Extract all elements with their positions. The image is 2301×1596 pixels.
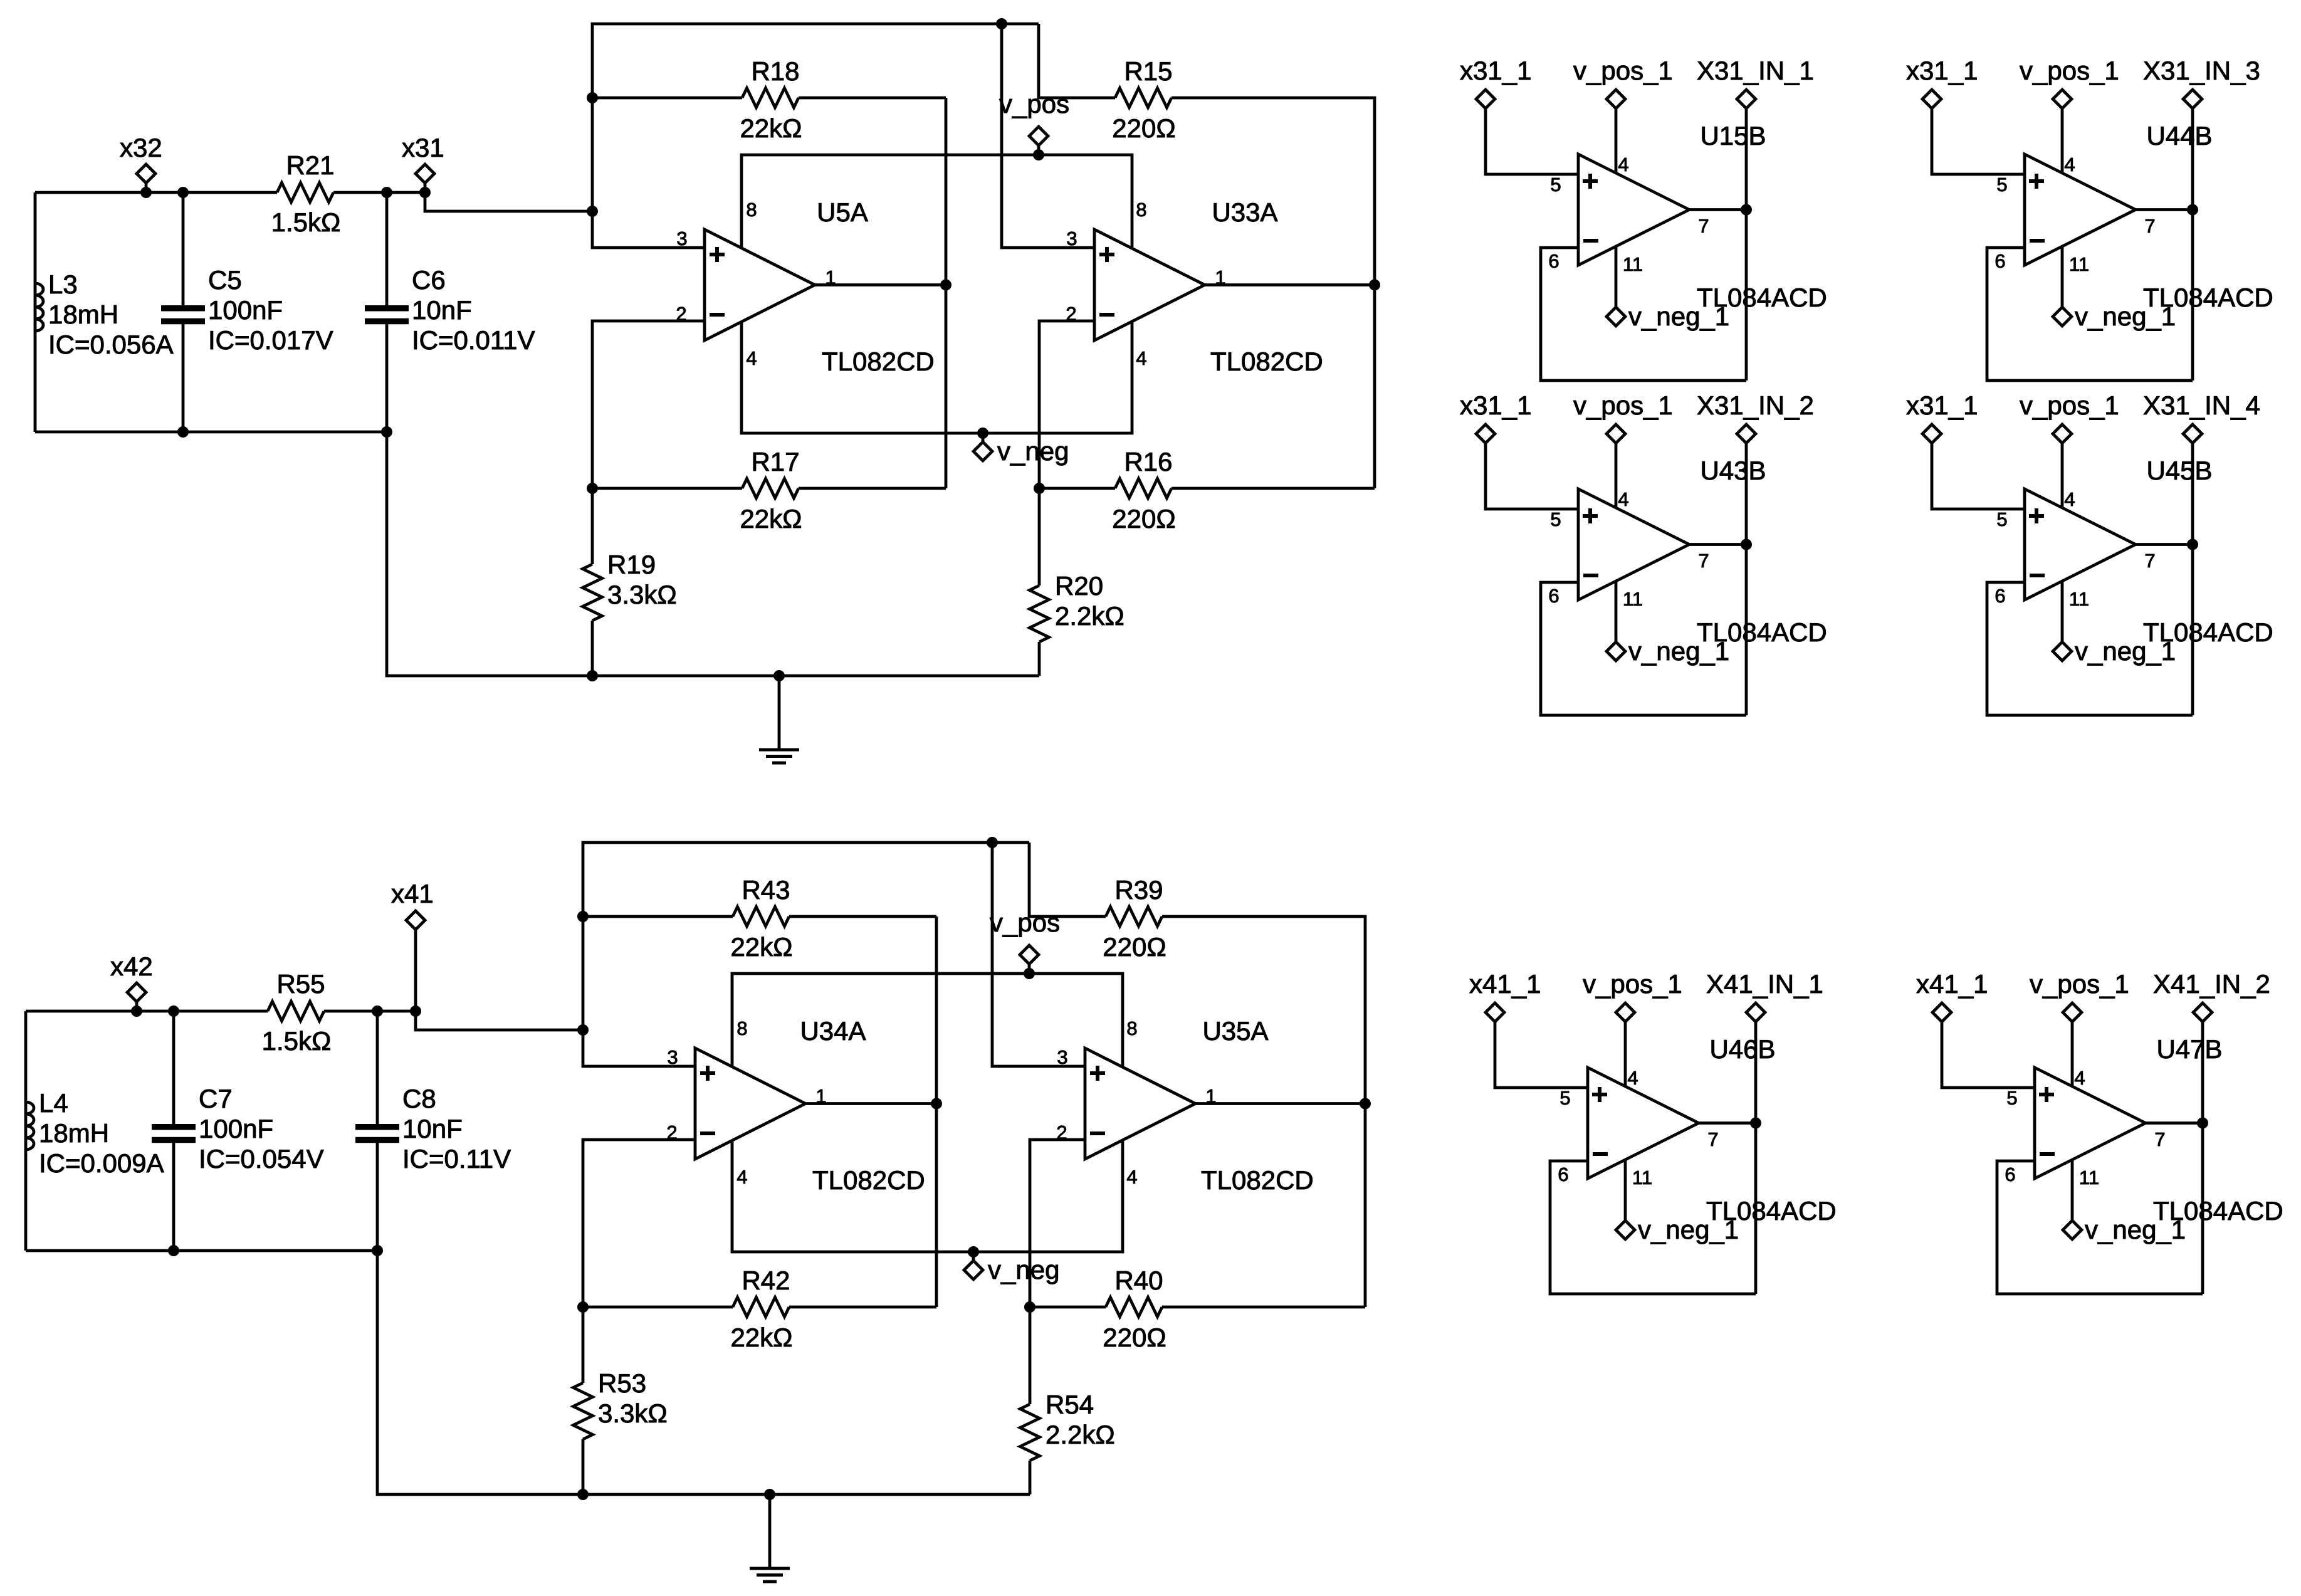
svg-text:X31_IN_2: X31_IN_2: [1697, 391, 1814, 420]
svg-text:6: 6: [1548, 585, 1559, 607]
svg-text:X31_IN_3: X31_IN_3: [2143, 56, 2260, 85]
svg-text:10nF: 10nF: [402, 1114, 463, 1143]
svg-text:C5: C5: [208, 265, 242, 295]
svg-text:TL084ACD: TL084ACD: [2143, 617, 2273, 647]
svg-text:5: 5: [1550, 508, 1561, 530]
svg-text:8: 8: [1136, 199, 1146, 221]
svg-text:X31_IN_4: X31_IN_4: [2143, 391, 2260, 420]
svg-text:R53: R53: [598, 1368, 646, 1398]
svg-text:4: 4: [1618, 488, 1628, 510]
svg-text:1.5kΩ: 1.5kΩ: [271, 207, 341, 237]
svg-text:v_pos_1: v_pos_1: [2030, 969, 2129, 999]
svg-text:4: 4: [2074, 1067, 2085, 1089]
svg-text:2.2kΩ: 2.2kΩ: [1046, 1420, 1115, 1449]
svg-text:U35A: U35A: [1202, 1016, 1268, 1046]
svg-text:2: 2: [666, 1121, 677, 1143]
svg-text:7: 7: [1698, 215, 1709, 237]
svg-text:x41_1: x41_1: [1916, 969, 1988, 999]
svg-text:v_neg: v_neg: [988, 1255, 1059, 1284]
svg-text:v_pos_1: v_pos_1: [1573, 56, 1673, 85]
svg-text:1: 1: [1215, 266, 1225, 288]
svg-text:v_pos_1: v_pos_1: [1573, 391, 1673, 420]
svg-text:v_neg: v_neg: [997, 436, 1069, 466]
svg-text:L4: L4: [39, 1088, 68, 1118]
svg-text:3.3kΩ: 3.3kΩ: [598, 1399, 668, 1428]
svg-text:2.2kΩ: 2.2kΩ: [1055, 601, 1124, 631]
svg-text:22kΩ: 22kΩ: [730, 1323, 792, 1352]
svg-text:100nF: 100nF: [199, 1114, 273, 1143]
svg-text:IC=0.054V: IC=0.054V: [199, 1144, 324, 1173]
svg-text:11: 11: [2069, 253, 2089, 275]
svg-text:4: 4: [2064, 154, 2075, 176]
svg-text:TL082CD: TL082CD: [1201, 1165, 1314, 1195]
svg-text:IC=0.056A: IC=0.056A: [48, 330, 174, 359]
svg-text:x42: x42: [110, 952, 153, 981]
svg-text:3: 3: [1066, 228, 1077, 249]
svg-text:TL084ACD: TL084ACD: [1706, 1196, 1837, 1226]
svg-text:6: 6: [1994, 585, 2005, 607]
svg-text:4: 4: [1126, 1166, 1137, 1188]
svg-text:U5A: U5A: [817, 197, 868, 227]
svg-text:IC=0.11V: IC=0.11V: [402, 1144, 511, 1173]
svg-text:R43: R43: [742, 875, 790, 905]
svg-text:5: 5: [2006, 1087, 2017, 1109]
svg-text:5: 5: [1550, 174, 1561, 196]
svg-text:3: 3: [676, 228, 687, 249]
svg-text:8: 8: [746, 199, 757, 221]
svg-text:R18: R18: [751, 56, 799, 86]
svg-text:5: 5: [1996, 174, 2007, 196]
svg-text:3: 3: [667, 1046, 678, 1068]
svg-text:U46B: U46B: [1709, 1034, 1775, 1064]
svg-text:22kΩ: 22kΩ: [730, 932, 792, 962]
svg-text:7: 7: [2154, 1128, 2165, 1150]
svg-text:4: 4: [736, 1166, 747, 1188]
svg-text:U33A: U33A: [1212, 197, 1277, 227]
svg-text:1: 1: [815, 1085, 826, 1107]
svg-text:R21: R21: [286, 150, 334, 180]
svg-text:U47B: U47B: [2156, 1034, 2222, 1064]
svg-text:2: 2: [1066, 303, 1076, 325]
svg-text:x31: x31: [402, 133, 444, 162]
svg-text:TL084ACD: TL084ACD: [2153, 1196, 2283, 1226]
svg-text:TL084ACD: TL084ACD: [2143, 283, 2273, 312]
svg-text:4: 4: [2064, 488, 2075, 510]
svg-text:1.5kΩ: 1.5kΩ: [262, 1026, 332, 1056]
svg-text:x31_1: x31_1: [1460, 56, 1531, 85]
svg-text:4: 4: [1136, 347, 1146, 369]
svg-text:8: 8: [1126, 1017, 1137, 1039]
svg-text:1: 1: [1205, 1085, 1216, 1107]
svg-text:6: 6: [1548, 250, 1559, 272]
svg-text:7: 7: [2144, 215, 2155, 237]
svg-text:v_pos_1: v_pos_1: [2020, 56, 2119, 85]
svg-text:7: 7: [2144, 550, 2155, 572]
svg-text:TL082CD: TL082CD: [822, 347, 935, 376]
svg-text:U15B: U15B: [1700, 121, 1766, 150]
svg-text:v_pos: v_pos: [999, 89, 1069, 118]
svg-text:11: 11: [1632, 1167, 1652, 1189]
svg-text:U34A: U34A: [800, 1016, 866, 1046]
svg-text:U45B: U45B: [2146, 456, 2212, 485]
svg-text:x31_1: x31_1: [1460, 391, 1531, 420]
svg-text:R16: R16: [1124, 447, 1172, 476]
svg-text:4: 4: [1618, 154, 1628, 176]
svg-text:R17: R17: [751, 447, 799, 476]
svg-text:220Ω: 220Ω: [1103, 1323, 1166, 1352]
svg-text:X41_IN_1: X41_IN_1: [1706, 969, 1823, 999]
svg-text:U43B: U43B: [1700, 456, 1766, 485]
svg-text:7: 7: [1707, 1128, 1718, 1150]
svg-text:6: 6: [1994, 250, 2005, 272]
svg-text:3: 3: [1057, 1046, 1067, 1068]
svg-text:10nF: 10nF: [412, 295, 472, 325]
svg-text:5: 5: [1559, 1087, 1570, 1109]
svg-text:v_pos_1: v_pos_1: [1583, 969, 1682, 999]
svg-text:X31_IN_1: X31_IN_1: [1697, 56, 1814, 85]
svg-text:18mH: 18mH: [48, 300, 118, 329]
svg-text:2: 2: [1056, 1121, 1067, 1143]
svg-text:R54: R54: [1046, 1390, 1094, 1419]
svg-text:C6: C6: [412, 265, 446, 295]
svg-text:TL084ACD: TL084ACD: [1697, 283, 1827, 312]
svg-text:L3: L3: [48, 270, 78, 299]
svg-text:TL082CD: TL082CD: [1210, 347, 1323, 376]
svg-text:x32: x32: [120, 133, 162, 162]
svg-text:IC=0.017V: IC=0.017V: [208, 325, 333, 355]
svg-text:7: 7: [1698, 550, 1709, 572]
svg-text:U44B: U44B: [2146, 121, 2212, 150]
svg-text:R40: R40: [1114, 1266, 1163, 1295]
svg-text:X41_IN_2: X41_IN_2: [2153, 969, 2270, 999]
svg-text:220Ω: 220Ω: [1103, 932, 1166, 962]
svg-text:220Ω: 220Ω: [1112, 113, 1175, 143]
svg-text:x31_1: x31_1: [1906, 391, 1978, 420]
svg-text:11: 11: [1623, 253, 1643, 275]
svg-text:TL082CD: TL082CD: [812, 1165, 925, 1195]
svg-text:C7: C7: [199, 1084, 233, 1113]
svg-text:5: 5: [1996, 508, 2007, 530]
svg-text:4: 4: [1627, 1067, 1638, 1089]
svg-text:8: 8: [736, 1017, 747, 1039]
svg-text:11: 11: [2079, 1167, 2099, 1189]
svg-text:4: 4: [746, 347, 757, 369]
svg-text:x31_1: x31_1: [1906, 56, 1978, 85]
svg-text:6: 6: [2005, 1163, 2015, 1185]
svg-text:11: 11: [2069, 588, 2089, 610]
svg-text:220Ω: 220Ω: [1112, 504, 1175, 533]
svg-text:R55: R55: [276, 969, 325, 999]
svg-text:R19: R19: [607, 550, 656, 579]
svg-text:R20: R20: [1055, 571, 1103, 601]
svg-text:R42: R42: [742, 1266, 790, 1295]
svg-text:2: 2: [676, 303, 686, 325]
svg-text:x41_1: x41_1: [1469, 969, 1541, 999]
svg-text:R39: R39: [1114, 875, 1163, 905]
svg-text:11: 11: [1623, 588, 1643, 610]
svg-text:3.3kΩ: 3.3kΩ: [607, 580, 677, 609]
svg-text:C8: C8: [402, 1084, 436, 1113]
svg-text:18mH: 18mH: [39, 1118, 109, 1148]
svg-text:22kΩ: 22kΩ: [740, 113, 802, 143]
svg-text:IC=0.011V: IC=0.011V: [412, 325, 535, 355]
svg-text:IC=0.009A: IC=0.009A: [39, 1148, 164, 1178]
svg-text:22kΩ: 22kΩ: [740, 504, 802, 533]
svg-text:1: 1: [825, 266, 836, 288]
svg-text:R15: R15: [1124, 56, 1172, 86]
svg-text:100nF: 100nF: [208, 295, 283, 325]
svg-text:TL084ACD: TL084ACD: [1697, 617, 1827, 647]
svg-text:v_pos_1: v_pos_1: [2020, 391, 2119, 420]
svg-text:x41: x41: [391, 879, 434, 908]
svg-text:6: 6: [1558, 1163, 1568, 1185]
svg-text:v_pos: v_pos: [990, 908, 1060, 937]
